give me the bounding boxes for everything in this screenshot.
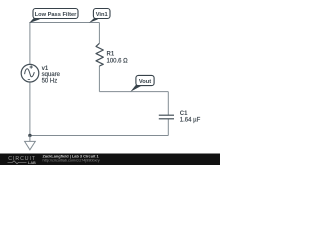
svg-text:Low Pass Filter: Low Pass Filter: [35, 12, 78, 18]
junction node dot: [28, 134, 31, 137]
wire resistor top lead: [98, 23, 100, 44]
flag Vout tail: [130, 85, 141, 92]
svg-text:v1: v1: [42, 66, 49, 72]
resistor R1: [96, 43, 103, 66]
flag Vin1: [93, 9, 110, 19]
wire right vertical Vout to C1 top: [167, 92, 169, 116]
wire resistor bottom lead: [98, 66, 100, 92]
wire bottom horizontal ground net: [30, 135, 168, 137]
wire top horizontal Vin1 net: [29, 22, 99, 24]
flag Low Pass Filter: [33, 9, 78, 19]
svg-text:Vout: Vout: [139, 79, 151, 85]
ground: [25, 136, 36, 150]
svg-text:http://circuitlab.com/c/z74j99: http://circuitlab.com/c/z74j99bbxry: [43, 158, 100, 162]
capacitor C1: [159, 115, 174, 119]
svg-text:50 Hz: 50 Hz: [42, 79, 58, 85]
svg-text:C1: C1: [180, 111, 188, 117]
svg-text:100.6 Ω: 100.6 Ω: [107, 58, 129, 64]
flag Low Pass Filter tail: [29, 18, 40, 23]
label R1 value: [107, 52, 129, 65]
flag Vin1 tail: [89, 18, 98, 23]
watermark logo squiggle: [8, 161, 27, 164]
svg-text:R1: R1: [107, 52, 115, 58]
svg-text:LAB: LAB: [28, 161, 36, 165]
svg-text:Vin1: Vin1: [96, 12, 108, 18]
svg-text:1.64 µF: 1.64 µF: [180, 118, 201, 124]
svg-text:square: square: [42, 72, 61, 78]
wire middle horizontal Vout net: [99, 91, 168, 93]
label V1 value: [42, 66, 61, 85]
watermark footer bar: [0, 154, 220, 166]
wire left vertical from top corner to V1 top: [29, 23, 31, 65]
label C1 value: [180, 111, 201, 123]
wire right vertical C1 bottom to ground net: [167, 119, 169, 136]
voltage source V1: [21, 64, 39, 82]
flag Vout: [136, 75, 154, 85]
watermark logo CIRCUIT LAB: [8, 156, 36, 165]
wire left vertical from V1 bottom to ground node: [29, 82, 31, 136]
